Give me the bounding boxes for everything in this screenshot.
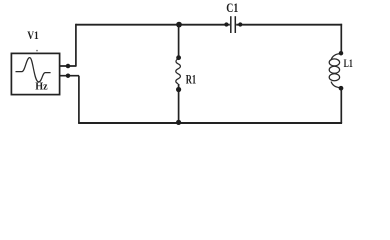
node: junction of R1 with top rail [176,22,182,28]
capacitor C1 right plate [234,16,236,33]
stray mark above V1 box [36,50,38,52]
wire: bottom rail [78,122,342,124]
node: V1 + terminal dot [66,64,71,69]
wire: top rail left segment (V1 corner to C1 left plate) [76,24,230,26]
node: R1 bottom pin dot [176,87,181,92]
wire: right vertical lower (L1 bottom to bottom rail) [340,88,342,124]
svg-text:C1: C1 [226,1,238,15]
wire: R1 branch upper lead [178,25,180,58]
wire: V1 - terminal stub [60,75,80,77]
node: junction of R1 with bottom rail [176,120,181,125]
capacitor C1 left plate [230,16,232,33]
node: V1 - terminal dot [66,73,71,78]
node: C1 right pin dot [238,22,242,26]
node: L1 bottom pin dot [339,86,344,91]
node: L1 top pin dot [339,51,344,56]
wire: top rail right segment (C1 right plate to top-right corner) [236,24,342,26]
wire: vertical from V1 - terminal down to bottom rail [78,76,80,123]
wire: R1 branch lower lead [178,84,180,123]
node: C1 left pin dot [224,22,228,26]
wire: right vertical upper (corner to L1 top) [340,24,342,54]
inductor L1 (vertical coil loops) [329,54,341,88]
source V1 sine waveform [16,58,51,82]
svg-text:V1: V1 [27,28,39,42]
svg-text:Hz: Hz [35,80,47,92]
resistor R1 (vertical squiggle) [176,59,181,84]
svg-text:L1: L1 [344,58,353,70]
wire: V1 + terminal stub [60,65,77,67]
source V1 (box) [11,53,59,94]
svg-text:R1: R1 [186,72,196,86]
node: R1 top pin dot [176,55,181,60]
wire: left vertical from top rail down to V1 + terminal [75,24,77,66]
